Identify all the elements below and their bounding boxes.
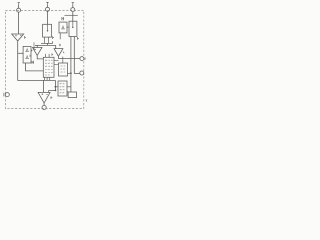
limiter diode symbol 1 [25,48,28,51]
op-amp A (points down) [12,34,24,41]
terminal T5 (bottom border) [42,105,46,109]
wire T1 to op-amp A [17,12,19,34]
junction dot [55,86,57,88]
pin bus bar [41,41,53,43]
terminal T4 (left border) [5,93,9,97]
dash-dot enclosure border [5,10,83,108]
terminal T2 stem label [46,2,48,4]
box R1 inner symbol [61,25,64,29]
sensor label [53,36,54,39]
box C right lead upper [67,86,71,88]
terminal T1 stem [18,4,20,8]
op-amp B apex wire to IC box [37,55,43,59]
terminal T4 label "1" [3,93,5,97]
op-amp C right tick [63,52,64,54]
limiter diode symbol 2 [25,55,28,58]
junction wire down from bottom bus [54,80,56,90]
terminal T3 stem [72,4,74,7]
wire T3 to box R2 [72,12,74,22]
wire junction to box C [55,86,58,88]
IC box top pins [46,54,50,57]
terminal right 1 [80,57,84,61]
op-amp B label [31,49,32,51]
box D small [68,92,76,98]
junction dot box B lead [70,72,72,74]
wire T2 to sensor box [47,11,49,24]
box C text [60,84,65,93]
limiter label [32,61,34,64]
wire bar to op-amps B and C [35,43,56,48]
IC box center [43,57,54,77]
limiter bottom wire to IC box [26,63,44,71]
op-amp D +/- marks [42,93,48,95]
box B [59,63,68,76]
box B text [60,66,65,72]
box C [58,81,67,96]
limiter box [23,46,31,63]
terminal T2 [46,7,50,11]
op-amp D apex wire [43,103,45,105]
box R1 bottom pin [59,33,61,39]
op-amp A label [25,36,26,39]
terminal T3 [71,8,75,12]
figure mark outside bottom right [85,100,87,102]
IC box center text rows [45,60,53,75]
op-amp C apex wire [57,56,59,58]
sensor box [43,24,52,37]
terminal T1 [17,8,21,12]
terminal right 2 [80,71,84,75]
terminal right 1 label [84,57,86,60]
IC box bottom pins [45,77,50,80]
box R1 label [62,17,64,20]
op-amp C label top [60,44,61,46]
terminal T1 stem label [18,3,20,5]
op-amp C label left [52,53,53,55]
box R1 [59,22,67,33]
long vertical wire right [73,37,75,74]
terminal T3 stem label [72,3,74,5]
wire to op-amp D left input [43,80,45,92]
box R2 inner electrode [72,21,74,26]
stub wire left of op-amp B [34,42,36,49]
box B top pin [62,57,64,63]
box C right lead lower [67,91,68,93]
op-amp C (points down) [54,49,63,57]
op-amp D label [51,96,52,99]
sensor bottom pins [45,37,49,43]
wire to op-amp D right input [49,90,56,92]
background [0,0,90,120]
op-amp B (points down) [33,48,43,56]
long vertical wire left [70,37,72,93]
tall box side label [30,55,31,57]
box R1 right lead [67,26,69,28]
output wire to right terminal 1 [58,58,80,60]
wire to right terminal 2 [74,73,80,75]
wire branch to limiter box [18,52,23,54]
junction dot lower [55,90,57,92]
box R2 label [78,37,79,40]
IC box right leads to box B [54,61,59,65]
sensor inner electrode [47,24,49,30]
op-amp A +/- marks [15,35,21,37]
op-amp D (points down) [38,92,50,103]
wire op-amp A apex down and right along bottom [18,41,56,80]
box B right lead [68,72,71,74]
box R2 [69,21,77,36]
terminal T2 stem [47,4,49,7]
bar above boxes R [65,14,78,16]
